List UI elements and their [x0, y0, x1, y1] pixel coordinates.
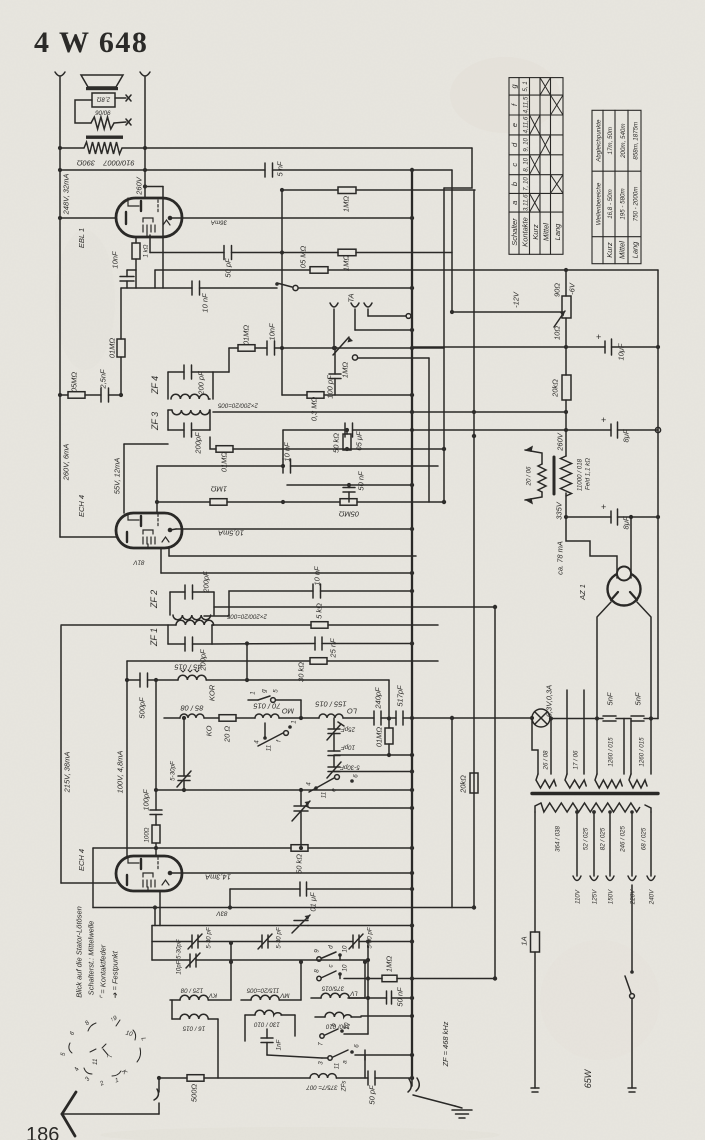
wire y941 with trimmers — [152, 941, 192, 943]
svg-text:11: 11 — [334, 1063, 341, 1069]
svg-text:125 / 08: 125 / 08 — [180, 987, 203, 994]
tap 110V — [576, 812, 578, 876]
wire y347 with 10uF electrolytic — [412, 346, 605, 348]
output transformer core — [86, 136, 123, 139]
svg-text:125V: 125V — [592, 889, 599, 904]
field coil 11000/018 Feld 1,1kohm — [561, 456, 572, 496]
node primary right — [143, 146, 147, 150]
svg-text:1MΩ: 1MΩ — [211, 485, 227, 494]
volume potentiometer 1Mohm — [333, 337, 349, 355]
svg-text:2,5nF: 2,5nF — [99, 369, 108, 390]
grid return resistor 01Mohm — [120, 288, 122, 339]
capacitor 1nF — [261, 1037, 273, 1039]
svg-text:200pF: 200pF — [202, 571, 211, 594]
svg-text:1: 1 — [250, 691, 257, 694]
wire corner down x472 — [444, 148, 472, 188]
wire y411 — [213, 411, 566, 413]
svg-text:7: 7 — [107, 1054, 114, 1058]
svg-text:70 / 015: 70 / 015 — [253, 702, 281, 711]
svg-text:10pF: 10pF — [340, 744, 355, 751]
svg-text:5-30pF: 5-30pF — [339, 764, 360, 771]
IF trap coil 375/7=007 — [310, 1074, 336, 1078]
svg-text:858m, 1875m: 858m, 1875m — [632, 122, 639, 160]
svg-text:➔ = Festpunkt: ➔ = Festpunkt — [111, 950, 120, 999]
capacitor 5nF — [264, 163, 266, 177]
cathode resistor 1kohm — [135, 237, 137, 243]
svg-text:240pF: 240pF — [374, 687, 383, 710]
svg-text:Feld 1,1 kΩ: Feld 1,1 kΩ — [585, 458, 592, 490]
svg-text:05 μF: 05 μF — [355, 431, 364, 451]
svg-text:375/015: 375/015 — [321, 985, 344, 992]
svg-text:260V, 6mA: 260V, 6mA — [62, 444, 71, 482]
svg-text:4: 4 — [254, 740, 261, 744]
svg-text:Schalterst.: Mittelwelle: Schalterst.: Mittelwelle — [87, 921, 96, 996]
svg-text:4: 4 — [73, 1066, 81, 1072]
wire y190 with 1Mohm — [282, 189, 338, 191]
corner supply rail to ECH4 — [60, 536, 116, 538]
svg-text:11000 / 018: 11000 / 018 — [577, 458, 584, 491]
wire tube bottom lead — [159, 891, 161, 926]
transformer core — [532, 792, 658, 795]
switch contact — [277, 283, 292, 287]
svg-text:16,8 - 50m: 16,8 - 50m — [607, 189, 614, 219]
svg-text:+: + — [601, 502, 606, 512]
svg-text:5 kΩ: 5 kΩ — [315, 603, 324, 619]
pilot lamp 6,3V 0,3A — [532, 709, 550, 727]
wire y170 with 5nF — [60, 169, 265, 171]
svg-text:EBL 1: EBL 1 — [77, 228, 86, 248]
mains switch — [631, 885, 633, 972]
svg-text:ZF 2: ZF 2 — [149, 590, 159, 609]
wire 55V grid feed — [124, 443, 168, 445]
band switch contact 3 11a 6 — [328, 1056, 332, 1060]
wire -12V bias y312 — [452, 311, 564, 313]
wire y288 with 10nF and switch — [121, 287, 192, 289]
svg-text:50 pF: 50 pF — [224, 258, 233, 278]
svg-text:1A: 1A — [520, 936, 529, 945]
corner rail to ECH4 mixer — [61, 882, 116, 884]
svg-text:17m, 50m: 17m, 50m — [607, 127, 614, 155]
svg-text:150V: 150V — [608, 889, 615, 904]
wire corner to KOR line — [246, 644, 248, 681]
capacitor 50pF — [367, 1071, 369, 1085]
svg-text:-12V: -12V — [512, 291, 521, 308]
svg-text:05 MΩ: 05 MΩ — [299, 246, 308, 269]
svg-text:3: 3 — [84, 1075, 92, 1083]
svg-text:ca. 78 mA: ca. 78 mA — [556, 541, 565, 575]
svg-text:240V: 240V — [649, 889, 656, 905]
resistor 05Mohm — [68, 392, 85, 399]
wire y348 with 01Mohm and 10nF — [229, 347, 238, 349]
capacitor 100pF — [334, 348, 336, 374]
svg-text:3: 3 — [318, 1061, 325, 1065]
svg-text:25 nF: 25 nF — [329, 638, 338, 659]
wire y252 with 1Mohm — [282, 252, 338, 254]
svg-text:115/20=005: 115/20=005 — [246, 987, 279, 994]
svg-text:6: 6 — [353, 774, 360, 778]
IF transformer ZF2 — [170, 591, 185, 593]
wire EBL1 grid to 50pF — [149, 235, 151, 253]
wire EBL1 plate to bus y218 — [170, 217, 412, 219]
mains primary winding with taps — [535, 803, 541, 812]
vertical links antenna section — [171, 1000, 173, 1019]
svg-text:e: e — [510, 123, 519, 127]
AVC rail x444 — [443, 188, 445, 502]
AZ1 plate leads — [597, 602, 611, 719]
wire y1078 — [159, 1077, 187, 1079]
svg-text:+: + — [601, 415, 606, 425]
potentiometer 10ohm 90ohm — [562, 296, 571, 318]
svg-text:-6V: -6V — [568, 282, 577, 295]
wire EBL1 screen feed — [145, 186, 163, 188]
TA pickup terminals — [330, 303, 338, 307]
svg-text:10 nF: 10 nF — [201, 293, 210, 313]
svg-text:90/06: 90/06 — [95, 109, 111, 116]
table X marks — [530, 78, 564, 213]
svg-text:c: c — [328, 964, 335, 968]
antenna coil 130/010 — [255, 1010, 282, 1015]
wire y925 with tuning capacitor — [152, 925, 294, 927]
wire to AZ1 filament — [566, 517, 617, 578]
supply rail lower section — [61, 624, 168, 626]
svg-text:6: 6 — [354, 1044, 361, 1048]
svg-text:Wellenbereiche: Wellenbereiche — [595, 182, 602, 225]
svg-text:14,3mA: 14,3mA — [205, 873, 231, 882]
svg-text:5-30 pF: 5-30 pF — [206, 926, 213, 949]
svg-text:ZF 4: ZF 4 — [150, 376, 160, 395]
antenna coupling capacitor 500pF — [127, 679, 140, 681]
svg-text:100Ω: 100Ω — [144, 827, 151, 842]
svg-text:10nF: 10nF — [268, 323, 277, 341]
svg-text:20 / 06: 20 / 06 — [526, 466, 533, 486]
svg-text:9: 9 — [314, 949, 321, 953]
capacitor 5nF (HV bypass) — [603, 715, 616, 717]
svg-text:Mittel: Mittel — [618, 241, 627, 259]
wire y1017 links — [217, 1019, 219, 1078]
svg-text:10: 10 — [344, 1022, 351, 1029]
antenna coil 290/010 — [325, 1012, 352, 1017]
svg-text:TA: TA — [347, 293, 356, 302]
mains lead with fuse 1A — [534, 812, 536, 932]
wire pot wiper down x429 — [428, 358, 430, 502]
wire y889 with 01uF — [230, 888, 300, 890]
X terminal — [126, 95, 131, 101]
svg-text:Blick auf die Stator-Lötösen: Blick auf die Stator-Lötösen — [75, 906, 84, 998]
svg-text:b: b — [510, 182, 519, 186]
oscillator coil LO 155/015 — [319, 714, 343, 718]
svg-text:ZF 3: ZF 3 — [150, 412, 160, 431]
heater line to pilot lamp — [412, 717, 532, 719]
tap 240V — [650, 812, 652, 876]
svg-text:LV: LV — [350, 990, 358, 997]
svg-text:10Ω: 10Ω — [553, 326, 562, 340]
transformer winding 17/06 — [566, 690, 568, 774]
svg-text:MO: MO — [282, 707, 294, 716]
wire voice coil to X terminal — [115, 97, 126, 99]
svg-text:10μF: 10μF — [617, 343, 626, 360]
IF transformer ZF3 — [172, 410, 210, 415]
svg-text:⌜ = Kontaktfeder: ⌜ = Kontaktfeder — [99, 944, 108, 999]
capacitor 10nF — [191, 281, 193, 295]
IF transformer ZF1 — [176, 620, 214, 625]
svg-text:364 / 038: 364 / 038 — [555, 826, 562, 852]
trimmer 5-30pF — [333, 756, 335, 768]
ECH4 internal electrodes — [127, 513, 169, 548]
svg-text:01MΩ: 01MΩ — [220, 452, 229, 473]
wire winding to X terminal — [114, 122, 126, 123]
rail x495 — [494, 607, 496, 979]
svg-text:1MΩ: 1MΩ — [341, 362, 350, 378]
svg-text:11: 11 — [92, 1059, 99, 1065]
main chassis bus — [411, 170, 413, 1078]
svg-text:2×200/20=005: 2×200/20=005 — [226, 613, 267, 620]
trimmer 5-30pF (ant MV) — [261, 935, 263, 948]
cathode capacitor 10nF — [120, 276, 134, 278]
svg-text:8: 8 — [314, 969, 321, 973]
right rail x658 — [657, 270, 659, 719]
svg-text:Lang: Lang — [631, 241, 640, 259]
wire oscillator grid y790 — [156, 789, 412, 791]
svg-text:Abgleichpunkte: Abgleichpunkte — [595, 119, 602, 163]
wire y395 left with 05Mohm and 2,5nF — [60, 394, 68, 396]
svg-text:ZF = 468 kHz: ZF = 468 kHz — [441, 1021, 450, 1067]
svg-text:ECH 4: ECH 4 — [77, 495, 86, 517]
wire tube cathode down — [160, 548, 162, 573]
EBL1 internal electrodes — [126, 198, 170, 237]
svg-text:9, 10: 9, 10 — [523, 137, 530, 151]
svg-text:110V: 110V — [575, 889, 582, 904]
wire y502 with 1Mohm and 05Mohm — [157, 501, 210, 503]
grid leak resistor 100ohm — [155, 815, 157, 826]
rail to EBL1 anode — [140, 72, 150, 76]
svg-text:10pF 5-30pF: 10pF 5-30pF — [176, 938, 183, 975]
oscillator tuning capacitor — [300, 790, 302, 806]
svg-text:2,8Ω: 2,8Ω — [97, 96, 112, 103]
svg-text:215V, 38mA: 215V, 38mA — [63, 752, 72, 794]
svg-text:517pF: 517pF — [396, 685, 405, 707]
resistor 50kohm vertical — [346, 430, 348, 434]
wire y485 with 50nF — [287, 484, 412, 486]
svg-text:68 / 025: 68 / 025 — [641, 827, 648, 850]
resistor 500ohm — [187, 1075, 204, 1082]
resistor 1Mohm — [338, 187, 356, 194]
svg-text:05MΩ: 05MΩ — [339, 510, 360, 519]
wire top feed y148 — [145, 147, 472, 149]
wire y848 with 50kohm — [93, 847, 291, 849]
resistor 1Mohm — [338, 249, 356, 256]
resistor 20kohm — [562, 375, 571, 400]
svg-text:c: c — [510, 163, 519, 167]
svg-text:11: 11 — [266, 745, 273, 751]
svg-text:5, 1: 5, 1 — [522, 81, 529, 91]
svg-text:5: 5 — [273, 689, 280, 693]
capacitor 2,5nF — [100, 388, 102, 402]
capacitor 8uF — [610, 424, 612, 436]
svg-text:5 nF: 5 nF — [276, 161, 285, 176]
svg-text:1MΩ: 1MΩ — [385, 956, 394, 972]
svg-text:1260 / 015: 1260 / 015 — [639, 737, 646, 767]
table 2 text — [595, 119, 639, 259]
svg-text:375/7= 007: 375/7= 007 — [306, 1084, 338, 1091]
switch contact table (Schalter/Kontakte) — [509, 78, 563, 255]
svg-text:Kurz: Kurz — [531, 224, 540, 240]
svg-text:910/0007: 910/0007 — [103, 159, 135, 168]
svg-text:50 nF: 50 nF — [396, 987, 405, 1007]
svg-text:10 nF: 10 nF — [313, 566, 322, 586]
svg-text:0,3 MΩ: 0,3 MΩ — [310, 396, 319, 421]
svg-text:4,11,5: 4,11,5 — [523, 96, 530, 113]
svg-text:25pF: 25pF — [340, 726, 356, 733]
supply rail (left, 248V) — [55, 72, 65, 76]
rectifier tube AZ1 — [608, 573, 641, 606]
AVC feed vertical — [367, 942, 369, 1035]
wire y1055 link — [365, 1054, 412, 1056]
wire y755 stub — [334, 754, 412, 756]
svg-text:1260 / 015: 1260 / 015 — [608, 737, 615, 767]
tap 125V — [593, 812, 595, 876]
svg-text:a: a — [510, 201, 519, 205]
supply chain rail x566 — [565, 270, 567, 296]
svg-text:1: 1 — [291, 720, 298, 723]
svg-text:50 nF: 50 nF — [357, 471, 366, 491]
AVC rail lower x452 — [451, 718, 453, 908]
vertical x282 — [281, 190, 283, 395]
tube EBL1 envelope — [116, 198, 182, 237]
resistor 20ohm — [219, 715, 236, 722]
capacitor 10pF — [333, 734, 335, 752]
svg-text:200pF: 200pF — [194, 432, 203, 455]
grid capacitor 100pF — [155, 680, 157, 810]
svg-text:55V, 12mA: 55V, 12mA — [113, 458, 122, 495]
field coil core bar — [553, 457, 556, 494]
svg-text:a: a — [342, 1060, 349, 1064]
wire grid-feed cross line y661 with 30kohm — [127, 660, 438, 662]
svg-text:5: 5 — [60, 1051, 68, 1056]
svg-text:6: 6 — [68, 1030, 76, 1037]
vertical x155 — [154, 270, 156, 288]
svg-text:155 / 015: 155 / 015 — [315, 700, 347, 709]
tube ECH4 (mixer) envelope — [116, 856, 182, 891]
capacitor 5nF (HV bypass) — [631, 715, 644, 717]
svg-text:50 kΩ: 50 kΩ — [295, 854, 304, 874]
svg-text:4 W 648: 4 W 648 — [34, 26, 148, 59]
SW oscillator coil 45/015 KOR — [178, 675, 206, 680]
svg-text:17 / 06: 17 / 06 — [573, 750, 580, 769]
output transformer primary 390ohm 910/0007 — [60, 142, 145, 154]
svg-text:390Ω: 390Ω — [77, 159, 96, 168]
svg-text:b: b — [331, 1023, 338, 1027]
svg-text:4: 4 — [306, 782, 313, 786]
svg-text:1 kΩ: 1 kΩ — [143, 244, 150, 257]
band switch contact 10 b 7 — [320, 1034, 324, 1038]
junction dots on bus — [410, 168, 497, 1080]
svg-text:Mittel: Mittel — [542, 223, 551, 241]
svg-text:+: + — [596, 332, 601, 342]
svg-text:26 / 08: 26 / 08 — [543, 750, 550, 770]
wire mixer plate y873 — [170, 872, 412, 874]
transformer HV winding 1260/015 — [596, 719, 598, 775]
EBL1 plate node — [168, 216, 173, 221]
svg-text:45 / 015: 45 / 015 — [174, 663, 202, 672]
wire y430 screen supply — [283, 429, 345, 431]
antenna coil LV 375/015 — [311, 997, 321, 999]
capacitor 50nF — [348, 997, 387, 999]
svg-text:3,11,6: 3,11,6 — [523, 194, 530, 211]
grid feed rail 100V — [126, 661, 128, 856]
svg-text:260V: 260V — [556, 432, 565, 452]
wire y960 with trimmer 10pF 5-30pF — [152, 959, 190, 961]
svg-text:500Ω: 500Ω — [190, 1084, 199, 1103]
svg-text:20kΩ: 20kΩ — [551, 379, 560, 398]
svg-text:10: 10 — [342, 964, 349, 971]
table 1 text — [510, 81, 562, 247]
svg-text:1MΩ: 1MΩ — [342, 255, 351, 271]
wave band table (Wellenbereiche/Abgleichpunkte) — [592, 110, 641, 263]
svg-text:200m, 540m: 200m, 540m — [620, 123, 627, 158]
svg-text:16 / 015: 16 / 015 — [182, 1025, 205, 1032]
svg-text:8, 10: 8, 10 — [523, 157, 530, 171]
hum coil 20/06 — [538, 464, 546, 492]
loudspeaker cone — [81, 75, 123, 87]
svg-text:52 / 025: 52 / 025 — [583, 827, 590, 850]
ECH4 mixer internal electrodes — [127, 856, 169, 891]
svg-text:KO: KO — [205, 725, 214, 736]
band switch contact 9 d 10 — [317, 957, 321, 961]
capacitor 10nF — [266, 341, 268, 355]
band switch contact 1 g 5 — [248, 699, 258, 701]
svg-text:20kΩ: 20kΩ — [459, 775, 468, 794]
svg-text:750 - 2000m: 750 - 2000m — [632, 187, 639, 222]
svg-text:ZF 1: ZF 1 — [149, 628, 159, 647]
svg-text:200 pF: 200 pF — [197, 371, 206, 396]
transformer winding 26/08 — [532, 718, 538, 774]
svg-text:AZ 1: AZ 1 — [578, 584, 587, 601]
svg-text:LO: LO — [347, 707, 357, 716]
svg-text:195 - 580m: 195 - 580m — [619, 188, 626, 219]
svg-text:5-30pF: 5-30pF — [170, 760, 177, 781]
wire ZF3 to 01Mohm y449 — [210, 437, 216, 449]
svg-text:Lang: Lang — [553, 223, 562, 241]
svg-text:90Ω: 90Ω — [553, 283, 562, 297]
svg-text:8μF: 8μF — [622, 429, 631, 442]
padder trimmer 25pF — [333, 718, 335, 729]
svg-text:1nF: 1nF — [276, 1038, 283, 1050]
svg-text:g: g — [261, 689, 268, 693]
svg-text:4,11,6: 4,11,6 — [523, 116, 530, 133]
svg-text:30 kΩ: 30 kΩ — [297, 662, 306, 682]
capacitor 50pF — [223, 246, 225, 260]
svg-text:01 μF: 01 μF — [309, 892, 318, 912]
svg-text:83V: 83V — [216, 910, 228, 917]
svg-text:2×200/20=005: 2×200/20=005 — [217, 402, 258, 409]
svg-text:130 / 010: 130 / 010 — [254, 1021, 280, 1028]
wire ECH4 plate y533 — [170, 529, 176, 530]
trimmer 5-30pF (ant KV) — [191, 935, 193, 948]
svg-text:d: d — [328, 945, 335, 949]
hum-bucking winding — [91, 117, 114, 129]
svg-text:ZḞs: ZḞs — [341, 1081, 348, 1093]
svg-text:ECH 4: ECH 4 — [77, 849, 86, 871]
svg-text:2: 2 — [98, 1079, 106, 1088]
gang frame link — [151, 926, 153, 961]
wire rail to EBL1 left pin — [60, 217, 116, 219]
rail x452 top — [451, 170, 453, 312]
svg-text:335V: 335V — [555, 501, 564, 520]
svg-text:10,5mA: 10,5mA — [218, 529, 244, 538]
svg-text:01MΩ: 01MΩ — [375, 727, 384, 748]
svg-text:260V: 260V — [135, 176, 144, 196]
ground symbol — [455, 1106, 462, 1108]
